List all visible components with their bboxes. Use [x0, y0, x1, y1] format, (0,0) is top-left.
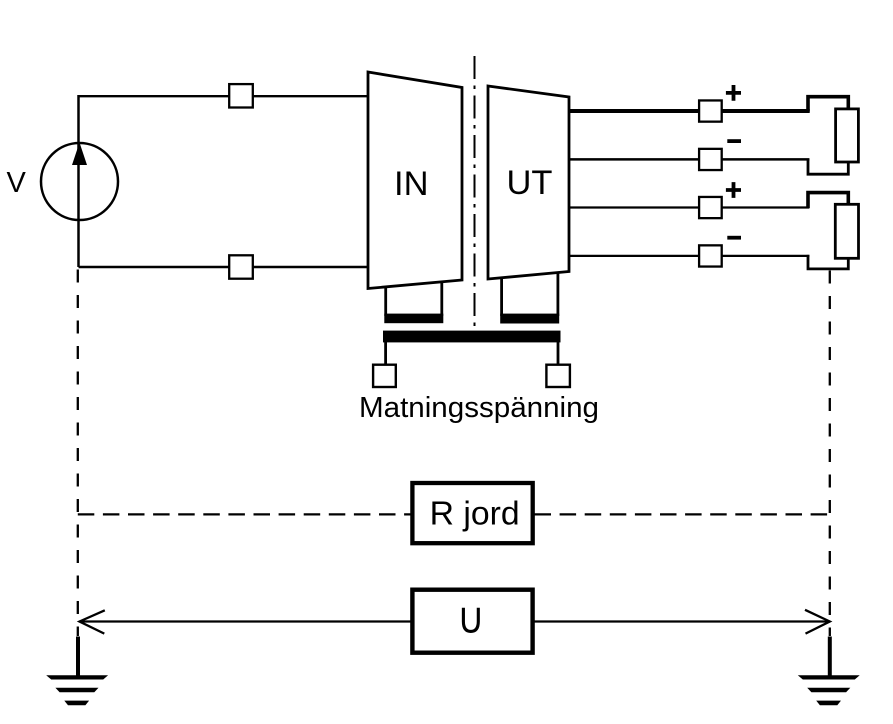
svg-text:R jord: R jord: [430, 495, 520, 532]
polarity minus 1: [727, 139, 741, 143]
amplifier input section IN: [368, 72, 462, 289]
ground left: [46, 675, 108, 679]
supply terminal square right: [546, 365, 570, 387]
terminal square output 1 minus: [699, 149, 722, 170]
dashed ground rail right: [829, 271, 831, 637]
wire top from source to IN: [79, 95, 368, 97]
wire bottom from source to IN: [79, 266, 369, 268]
dashed R jord wire left: [78, 513, 411, 515]
dashed R jord wire right: [535, 513, 830, 515]
dashed ground rail left: [77, 270, 79, 637]
svg-text:V: V: [7, 167, 27, 199]
voltage source V: [41, 143, 118, 220]
supply bus bar: [383, 331, 561, 343]
svg-text:UT: UT: [507, 164, 553, 202]
load 1 top connection: [808, 97, 848, 112]
svg-text:IN: IN: [394, 165, 429, 203]
wire output 1 plus: [569, 109, 810, 113]
wire output 2 plus: [569, 206, 809, 208]
load resistor 1: [836, 109, 859, 162]
load 2 top connection: [808, 193, 848, 208]
terminal square output 1 plus: [699, 100, 722, 121]
terminal square output 2 plus: [699, 197, 722, 218]
svg-text:Matningsspänning: Matningsspänning: [359, 392, 599, 424]
wire supply right leg: [557, 342, 560, 364]
voltage source arrow: [72, 143, 87, 166]
wire output 2 minus: [569, 255, 809, 257]
terminal square top-left: [229, 84, 253, 107]
wire supply left leg: [384, 342, 387, 364]
amplifier output section UT: [488, 86, 569, 279]
voltage U measurement line: [80, 620, 830, 622]
terminal square output 2 minus: [699, 245, 722, 266]
ground right: [798, 675, 860, 679]
label U: [463, 608, 478, 632]
ground left stem: [76, 637, 80, 677]
isolation barrier dash-dot line: [474, 56, 476, 330]
IN supply foot: [386, 282, 442, 316]
arrowhead left: [80, 610, 105, 633]
arrowhead right: [805, 610, 830, 634]
polarity plus 2: [726, 182, 741, 198]
UT supply foot: [502, 272, 558, 316]
wire left rail vertical: [77, 95, 80, 267]
load resistor 2: [835, 204, 858, 258]
wire output 1 minus: [569, 158, 809, 161]
resistor box R jord: [412, 483, 532, 543]
polarity plus 1: [726, 85, 741, 101]
polarity minus 2: [727, 236, 741, 240]
label box U: [412, 590, 532, 653]
load 2 bottom connection: [808, 255, 848, 269]
terminal square bottom-left: [229, 255, 253, 278]
load 1 bottom connection: [808, 159, 848, 175]
ground right stem: [828, 637, 832, 677]
supply terminal square left: [373, 365, 396, 387]
